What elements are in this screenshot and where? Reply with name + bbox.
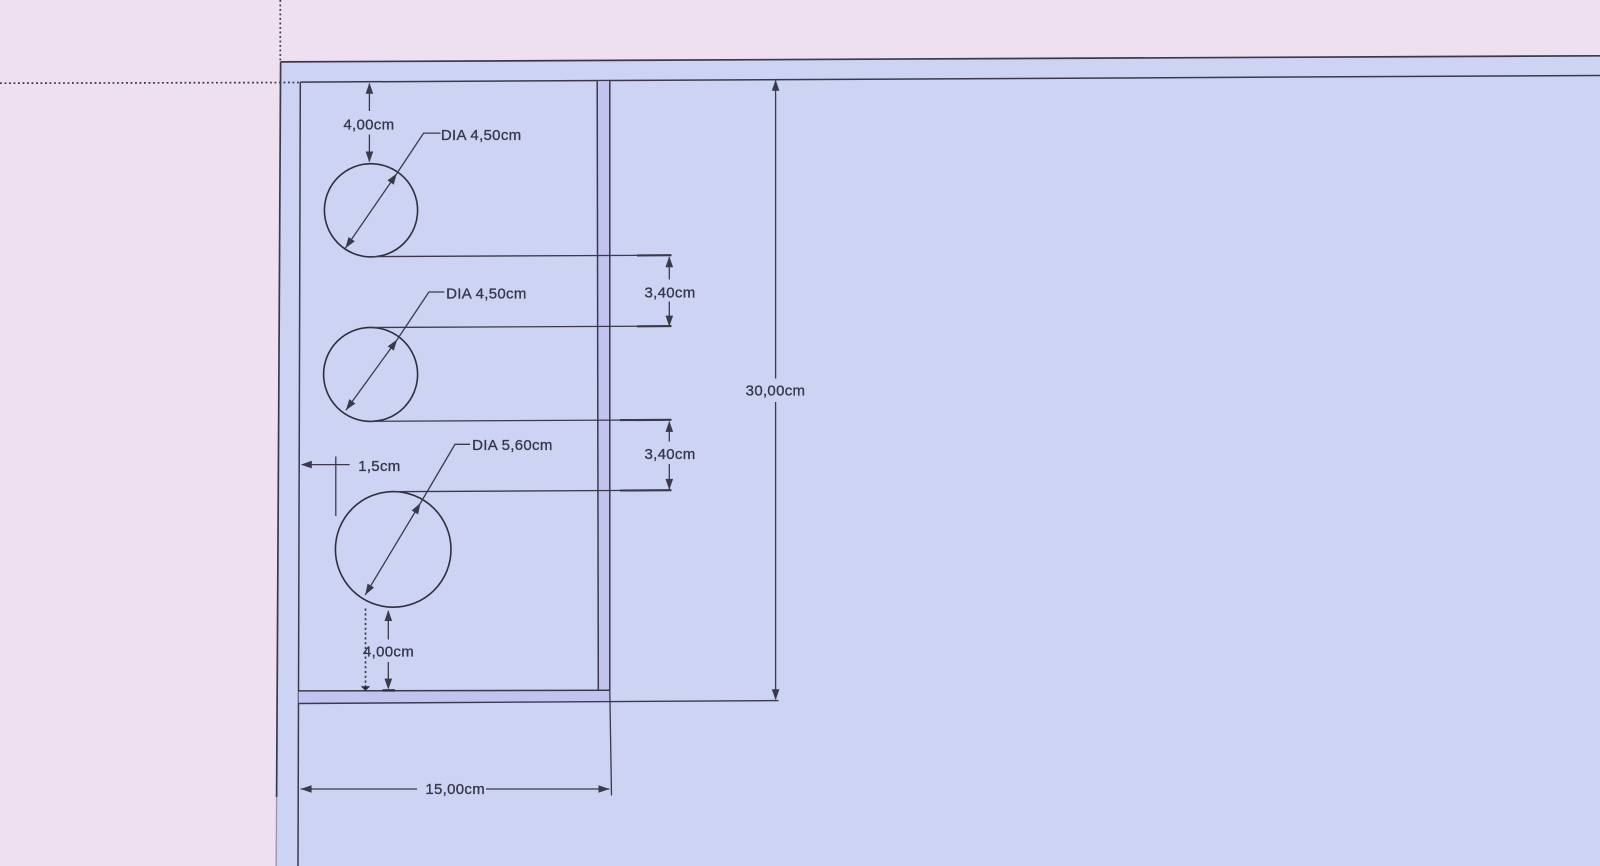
svg-text:DIA 4,50cm: DIA 4,50cm	[441, 127, 522, 144]
dia arrow circle3	[365, 503, 420, 595]
svg-text:DIA 4,50cm: DIA 4,50cm	[446, 286, 527, 303]
bottom board bottom line (extends right as extension line for 30,00cm)	[299, 701, 779, 704]
svg-text:4,00cm: 4,00cm	[363, 644, 414, 661]
dia arrow circle2	[346, 340, 397, 411]
tangent line circle1 bottom	[371, 255, 672, 256]
small arrow at base of dotted line	[361, 686, 371, 691]
svg-text:1,5cm: 1,5cm	[358, 458, 400, 475]
hole circle 2	[324, 327, 418, 421]
dim 1,5cm extension line	[335, 457, 337, 517]
construction axis dotted vertical	[279, 0, 281, 62]
construction axis dotted horizontal	[0, 82, 300, 85]
svg-text:3,40cm: 3,40cm	[645, 446, 696, 463]
hole circle 1	[324, 164, 417, 257]
svg-text:3,40cm: 3,40cm	[645, 285, 696, 302]
svg-text:4,00cm: 4,00cm	[343, 117, 394, 134]
hole circle 3	[335, 492, 451, 608]
left board inner line	[298, 82, 300, 866]
dim 30,00cm shaft	[775, 81, 777, 379]
svg-text:30,00cm: 30,00cm	[746, 383, 806, 400]
tick under bottom arrow	[383, 689, 396, 691]
tangent line circle2 bottom	[371, 420, 672, 422]
left edge faded lower part	[275, 797, 277, 866]
svg-text:15,00cm: 15,00cm	[425, 781, 485, 798]
dim 4,00cm top: shaft	[368, 84, 370, 112]
dim 15,00cm line	[301, 788, 417, 790]
tangent line circle2 top	[371, 326, 672, 327]
top edge line of cabinet	[281, 56, 1600, 62]
dotted extension below circle3	[365, 609, 367, 690]
dia label 3 leader	[421, 444, 471, 503]
dim 4,00cm bottom shaft	[387, 611, 389, 640]
divider right line	[609, 81, 611, 690]
svg-text:DIA 5,60cm: DIA 5,60cm	[472, 437, 553, 454]
divider board fill	[597, 81, 610, 690]
top board inner line	[300, 76, 1600, 83]
dia arrow circle1	[345, 174, 396, 249]
panel face (front board of cabinet)	[276, 56, 1600, 866]
dim 4,00cm top: arrowheads	[366, 83, 374, 94]
left edge line of cabinet	[277, 62, 281, 797]
dim 3,40cm #1 shaft	[668, 257, 670, 280]
divider left line	[597, 81, 598, 690]
dim 1,5cm line	[302, 464, 350, 466]
dim 3,40cm #2 shaft	[668, 422, 670, 442]
bottom board fill	[299, 691, 610, 704]
dia label 1 leader	[397, 133, 441, 173]
extension line below divider (for 15,00cm)	[610, 690, 612, 795]
bottom board top line	[299, 689, 610, 692]
dia label 2 leader	[397, 292, 444, 340]
tangent line circle3 top	[393, 490, 672, 492]
